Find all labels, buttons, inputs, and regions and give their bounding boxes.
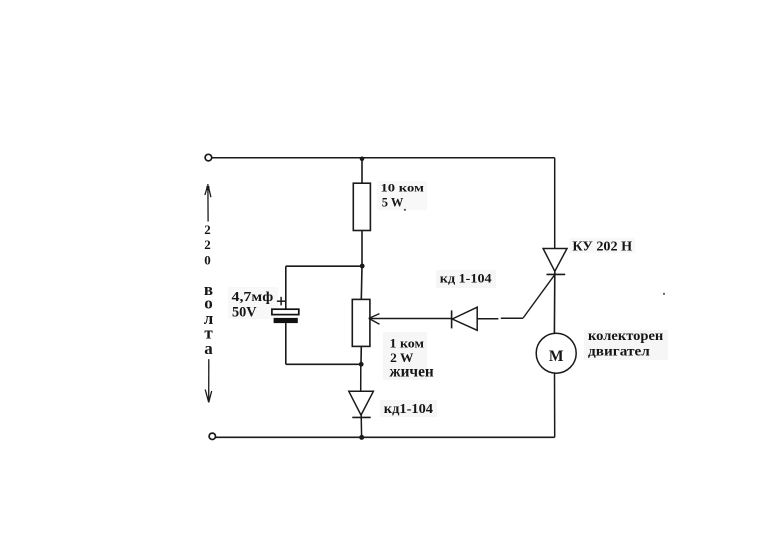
- wire gate diagonal to thyristor: [523, 275, 554, 318]
- svg-text:4,7мф: 4,7мф: [232, 289, 274, 304]
- svg-text:жичен: жичен: [390, 364, 434, 381]
- wire potentiometer to node C: [360, 346, 362, 364]
- diode D2 cathode bar: [352, 416, 370, 418]
- label 220 волта (vertical): [204, 222, 214, 358]
- svg-text:кд1-104: кд1-104: [384, 402, 433, 417]
- svg-text:50V: 50V: [232, 305, 257, 321]
- wire node B to potentiometer: [360, 266, 363, 299]
- capacitor C1 top plate: [272, 309, 299, 314]
- speck after 5 W: [404, 209, 406, 211]
- resistor R1 10 ком 5 W: [353, 183, 370, 230]
- potentiometer wiper arrow: [369, 314, 380, 325]
- wire right side top: [554, 158, 556, 249]
- capacitor C1 plus sign: [277, 297, 285, 306]
- diode D2 кд1-104 triangle: [349, 391, 374, 415]
- svg-text:М: М: [549, 348, 564, 365]
- wire D1 to gate segment 2: [501, 317, 523, 319]
- svg-text:2: 2: [204, 237, 211, 252]
- svg-text:5 W: 5 W: [382, 195, 404, 210]
- wire wiper to diode D1: [369, 318, 452, 320]
- wire capacitor branch left vertical lower: [285, 323, 287, 364]
- terminal bottom-left: [209, 433, 215, 439]
- wire R1 to node B: [361, 231, 363, 267]
- svg-text:10 ком: 10 ком: [381, 183, 425, 195]
- motor M1 circle: [536, 333, 576, 373]
- wire D2 to node D: [360, 415, 362, 437]
- svg-text:двигател: двигател: [588, 343, 650, 358]
- potentiometer RP1 1 ком 2 W body: [352, 299, 370, 346]
- node D (bottom junction): [359, 435, 364, 440]
- wire motor to bottom: [554, 373, 556, 437]
- capacitor C1 bottom plate: [274, 318, 298, 323]
- wire node A to R1: [361, 159, 363, 183]
- wire capacitor branch left vertical upper: [285, 266, 287, 309]
- 220V arrow up: [205, 184, 211, 222]
- svg-text:КУ 202 Н: КУ 202 Н: [572, 239, 632, 254]
- diode D1 кд 1-104 cathode bar: [451, 310, 453, 328]
- wire capacitor branch bottom horizontal: [286, 363, 362, 365]
- 220V arrow down: [205, 359, 212, 402]
- svg-text:колекторен: колекторен: [588, 328, 664, 343]
- thyristor V1 cathode bar: [547, 273, 566, 275]
- node A (top junction): [360, 157, 365, 162]
- wire capacitor branch top horizontal: [286, 265, 362, 267]
- wire D1 to gate segment 1: [477, 318, 498, 320]
- node C (below potentiometer): [359, 362, 364, 367]
- wire thyristor to motor: [553, 271, 555, 334]
- svg-text:0: 0: [204, 253, 211, 268]
- wire top: [212, 157, 555, 159]
- wire node C to diode D2: [360, 364, 362, 391]
- node B (middle junction): [360, 264, 365, 269]
- diode D1 triangle: [452, 307, 477, 330]
- speck right of motor: [663, 293, 665, 295]
- thyristor V1 КУ 202 Н triangle: [543, 249, 567, 272]
- wire bottom: [215, 436, 554, 438]
- svg-text:1 ком: 1 ком: [390, 336, 425, 350]
- svg-text:а: а: [204, 339, 213, 358]
- svg-text:2: 2: [204, 222, 211, 237]
- label background shading: [228, 181, 668, 417]
- svg-text:кд 1-104: кд 1-104: [440, 271, 492, 286]
- terminal top-left: [205, 154, 212, 161]
